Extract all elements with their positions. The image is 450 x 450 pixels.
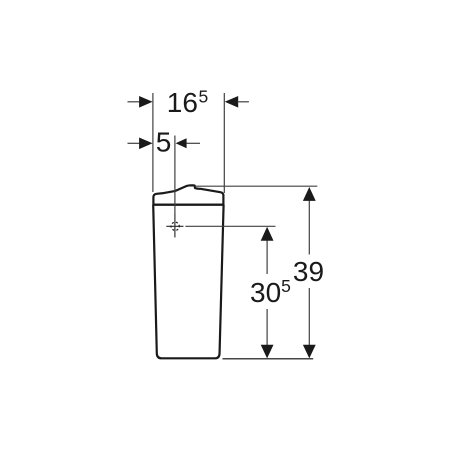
leader line from lid top to 39 dimension <box>196 185 318 187</box>
dimension 39 vertical line upper segment <box>308 200 310 255</box>
crosshair centre mark dashed circle <box>171 222 179 230</box>
crosshair vertical stroke <box>174 213 176 237</box>
dimension 30.5 top arrow <box>261 227 274 241</box>
extension line right (x=224.3) <box>223 93 225 193</box>
cistern lid outline <box>153 185 223 204</box>
svg-text:39: 39 <box>293 256 324 287</box>
dimension 30.5 bottom arrow <box>261 345 274 359</box>
dimension 5 left tail <box>128 142 141 144</box>
dimension 5 left arrow <box>139 138 153 150</box>
extension line left (x=152.9) <box>152 93 154 192</box>
dimension 5 right tail <box>186 142 200 144</box>
ground baseline <box>223 358 314 360</box>
dimension 16.5 left tail <box>128 101 141 103</box>
dimension 30.5 vertical line upper segment <box>266 240 268 274</box>
dimension 30.5 vertical line lower segment <box>266 309 268 346</box>
cistern body outline <box>153 205 223 359</box>
center line from crosshair to 30.5 dimension <box>166 225 183 227</box>
dimension 39 top arrow <box>303 187 316 201</box>
dimension 16.5 left arrow <box>139 96 153 108</box>
extension line middle through lid to crosshair <box>174 136 176 214</box>
lid/body junction line <box>153 204 223 206</box>
svg-text:5: 5 <box>156 127 172 158</box>
dimension 39 bottom arrow <box>303 345 316 359</box>
dimension 16.5 right tail <box>237 101 249 103</box>
dimension 16.5 right arrow <box>225 96 239 108</box>
dimension 5 right arrow <box>176 138 187 148</box>
dimension 39 vertical line lower segment <box>308 288 310 346</box>
